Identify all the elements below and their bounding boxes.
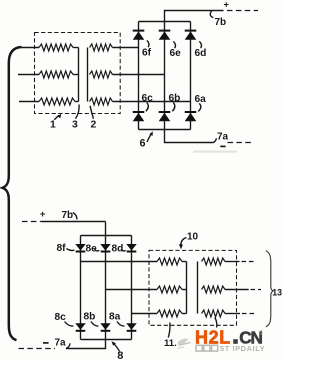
svg-text:8a: 8a xyxy=(109,312,121,323)
phase wire col3 to load xyxy=(132,313,158,315)
svg-text:6a: 6a xyxy=(195,94,207,105)
load star bus right xyxy=(197,262,199,314)
wire phase3 left xyxy=(19,101,39,103)
wire -7a dashed xyxy=(19,348,56,350)
winding resistor row3 left xyxy=(39,98,75,105)
label 7a top xyxy=(214,138,217,142)
load resistor row2 left xyxy=(157,286,182,293)
bridge 8 bottom bus xyxy=(81,339,132,341)
diode 6a xyxy=(185,111,197,113)
wire row2 out dashed xyxy=(251,289,262,291)
wire row2 to bridge col2 xyxy=(113,74,165,76)
svg-text:6d: 6d xyxy=(195,48,207,59)
wire row1 to bus xyxy=(182,261,187,263)
bridge 6 top bus xyxy=(139,21,191,23)
diode 6f xyxy=(133,30,145,32)
minus terminal bottom xyxy=(43,342,49,344)
svg-text:+: + xyxy=(223,0,229,9)
wire row1 to star bus xyxy=(73,47,79,49)
svg-text:8f: 8f xyxy=(57,243,67,254)
svg-text:7a: 7a xyxy=(55,338,67,349)
wire - dashed xyxy=(228,142,253,144)
svg-text:8e: 8e xyxy=(86,243,98,254)
bridge 6 middle col xyxy=(164,22,166,130)
svg-text:1: 1 xyxy=(50,120,56,131)
wire +7b dashed (bottom) xyxy=(22,221,42,223)
transformer box 1 (dashed) xyxy=(35,33,121,114)
svg-text:6: 6 xyxy=(140,137,146,149)
wire phase2 left xyxy=(18,74,39,76)
winding resistor row1 right xyxy=(90,44,113,51)
svg-text:+: + xyxy=(40,208,46,219)
bridge 6 bottom bus xyxy=(139,129,191,131)
minus terminal xyxy=(220,145,225,147)
winding resistor row2 left xyxy=(39,71,73,78)
wire row1 to bridge col1 xyxy=(113,47,139,49)
wire + riser xyxy=(165,11,224,22)
svg-text:6b: 6b xyxy=(169,93,181,104)
watermark pencil mark xyxy=(178,339,189,347)
svg-text:6f: 6f xyxy=(142,47,152,58)
load resistor row2 right xyxy=(202,286,226,293)
phase wire col1 to load xyxy=(81,261,158,263)
svg-text:5T IPDAILY: 5T IPDAILY xyxy=(220,344,265,353)
svg-text:7b: 7b xyxy=(215,17,227,28)
output brace 13 xyxy=(266,251,273,327)
load box 10 (dashed) xyxy=(149,250,237,325)
wire phase1 left xyxy=(22,47,40,49)
svg-text:11.: 11. xyxy=(164,338,177,349)
svg-text:8b: 8b xyxy=(84,312,96,323)
wire +7b solid xyxy=(42,221,106,223)
diode 8f xyxy=(76,251,86,253)
svg-text:7b: 7b xyxy=(62,210,74,221)
load resistor row1 right xyxy=(202,258,226,265)
diode 8d xyxy=(127,251,137,253)
svg-text:8c: 8c xyxy=(55,312,67,323)
diode 8b xyxy=(101,330,111,332)
label 7a bottom xyxy=(66,343,70,348)
phase wire col2 to load xyxy=(106,289,158,291)
primary star bus 3 xyxy=(78,48,80,102)
wire - output xyxy=(165,130,214,143)
load resistor row3 left xyxy=(157,310,182,317)
bridge 8 mid col xyxy=(105,236,107,340)
wire row2 out xyxy=(225,289,249,291)
load resistor row1 left xyxy=(157,258,182,265)
faint smudge xyxy=(193,151,237,153)
winding resistor row2 right xyxy=(90,71,113,78)
diode 6b xyxy=(159,111,171,113)
wire row3 out dashed xyxy=(242,313,255,315)
bridge 8 top bus xyxy=(81,235,132,237)
wire + dashed xyxy=(227,10,258,12)
wire row3 to bridge col3 xyxy=(113,101,191,103)
watermark dot xyxy=(233,339,238,344)
diode 8c xyxy=(76,330,86,332)
load resistor row3 right xyxy=(202,310,226,317)
bridge 8 right col xyxy=(131,236,133,340)
wire row1 out dashed xyxy=(242,261,256,263)
wire row2 to bus xyxy=(182,289,187,291)
winding resistor row1 left xyxy=(39,44,73,51)
left grouping brace xyxy=(3,47,22,340)
svg-text:6e: 6e xyxy=(170,48,182,59)
svg-text:13: 13 xyxy=(272,288,282,298)
svg-text:8: 8 xyxy=(117,350,123,360)
bridge 6 outline right col xyxy=(190,22,192,130)
wire 7b drop xyxy=(105,222,107,236)
svg-text:10: 10 xyxy=(187,231,199,242)
diode 8a xyxy=(127,330,137,332)
diode 8e xyxy=(101,251,111,253)
svg-text:7a: 7a xyxy=(217,131,229,142)
leader from resistor 12 xyxy=(215,318,217,328)
wire row1 out xyxy=(225,261,240,263)
svg-text:2: 2 xyxy=(91,119,97,130)
diode 6e xyxy=(159,30,171,32)
wire -7a output xyxy=(66,340,106,349)
wire row2 to star bus xyxy=(73,74,79,76)
secondary star bus 2 xyxy=(87,48,89,102)
wire row3 to bus xyxy=(182,313,187,315)
diode 6c xyxy=(133,111,145,113)
bridge 6 outline left col xyxy=(138,22,140,130)
load star bus left xyxy=(186,262,188,314)
wire row3 out xyxy=(225,313,240,315)
winding resistor row3 right xyxy=(90,98,113,105)
svg-text:3: 3 xyxy=(72,119,78,130)
bridge 8 left col xyxy=(80,236,82,340)
label 7b top xyxy=(210,11,213,18)
watermark slogan xyxy=(196,345,202,351)
diode 6d xyxy=(185,30,197,32)
wire row3 to star bus xyxy=(75,101,79,103)
